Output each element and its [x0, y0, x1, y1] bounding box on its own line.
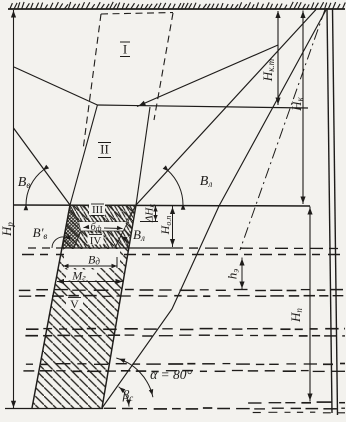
- dimension Нр (left vertical): [0, 10, 16, 408]
- underground level lines (dashed pairs): [19, 290, 345, 413]
- angle Вв arc and label: [18, 165, 49, 211]
- dimension Мг (vein thickness): [57, 269, 123, 285]
- angle α = 80° arc and label: [116, 358, 192, 397]
- svg-text:α = 80°: α = 80°: [150, 367, 192, 382]
- crosshatched wedge left of zones III-IV: [63, 205, 81, 248]
- dimension Нк: [289, 11, 306, 205]
- hatched wedge right of zones III-IV: [115, 205, 136, 248]
- mine shaft double line: [327, 8, 338, 415]
- zone IV label: [88, 234, 104, 248]
- angle Вл (lower) arc and label: [121, 227, 145, 248]
- shear line Вл to surface: [136, 10, 316, 206]
- dash-dot boundary line: [240, 10, 325, 251]
- svg-text:III: III: [92, 204, 103, 216]
- dimension hэ: [225, 258, 245, 290]
- svg-text:IV: IV: [90, 235, 102, 247]
- band бф (white) with dimension arrows: [79, 222, 126, 233]
- zone I dashed outline: [83, 13, 173, 151]
- angle Вл arc and label: [163, 165, 213, 209]
- dimension ΔНк with tick: [140, 204, 158, 223]
- dimension Нк.т: [260, 11, 281, 105]
- shear line Вв (hanging side): [14, 128, 71, 205]
- zone III label: [89, 204, 105, 217]
- dimension Нп: [288, 207, 313, 402]
- theoretical pit bottom line: [97, 105, 308, 108]
- angle βс arc and label: [119, 387, 134, 407]
- svg-text:V: V: [70, 297, 79, 311]
- zone IV hatched: [74, 231, 123, 248]
- zone I label: [120, 42, 130, 57]
- zone V label: [66, 296, 83, 311]
- construction line from Нр to corner of zone I: [14, 67, 97, 105]
- level line lower dashes: [22, 254, 345, 256]
- first underground level line: [28, 247, 345, 250]
- shear line βс from bottom of workings to surface: [102, 10, 326, 408]
- svg-text:I: I: [123, 42, 127, 57]
- zone II outline: [70, 105, 150, 205]
- angle В'в arc and label: [33, 225, 71, 248]
- ore vein body hatched: [5, 205, 136, 409]
- dimension Вд (pit bottom width): [63, 249, 120, 268]
- ground surface line: [8, 2, 345, 9]
- zone III hatched: [70, 205, 136, 222]
- svg-text:II: II: [100, 142, 109, 157]
- pit bottom line: [14, 205, 311, 206]
- zone II label: [98, 142, 111, 158]
- dimension Но.п: [158, 206, 175, 247]
- slope line to Нк.т with arrowhead: [137, 45, 278, 107]
